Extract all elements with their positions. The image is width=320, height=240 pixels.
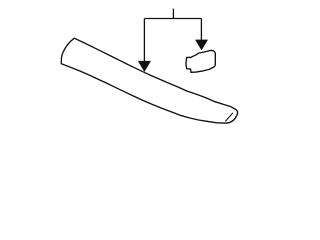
wire: left arrow leader line — [143, 19, 145, 63]
clip outline — [186, 50, 215, 72]
arrowhead pointing to clip — [196, 40, 208, 50]
trim molding blade outline — [61, 38, 237, 123]
callout bracket horizontal line with center tick — [144, 9, 201, 19]
wire: right arrow leader line — [200, 19, 202, 41]
facet line at molding right tip — [225, 113, 233, 122]
arrowhead pointing to molding — [138, 61, 150, 71]
